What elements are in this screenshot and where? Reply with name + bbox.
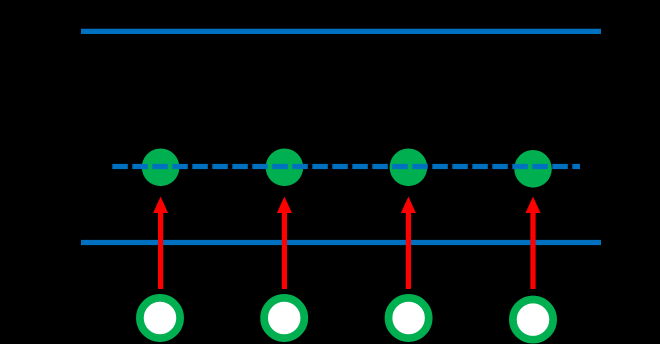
ionized donor D3+: [389, 298, 429, 338]
ionization arrow A4: [526, 197, 541, 290]
electron e2: [266, 149, 304, 187]
ionization arrow A3: [401, 197, 416, 290]
ionization arrow A2: [277, 197, 292, 290]
conduction band edge Ec (top solid blue line): [81, 29, 601, 34]
electron e1 (green filled circle on donor level): [142, 149, 180, 187]
electron e4: [514, 150, 552, 188]
donor energy level Ed (dashed blue line, drawn over electrons): [112, 164, 580, 169]
ionized donor D2+: [264, 298, 304, 338]
electron e3: [390, 149, 428, 187]
ionized donor D4+: [513, 300, 553, 340]
valence band edge Ev (bottom solid blue line): [81, 240, 601, 245]
ionized donor D1+ (open circle, green ring, white fill): [140, 298, 180, 338]
ionization arrow A1 (red up arrow): [153, 197, 168, 290]
